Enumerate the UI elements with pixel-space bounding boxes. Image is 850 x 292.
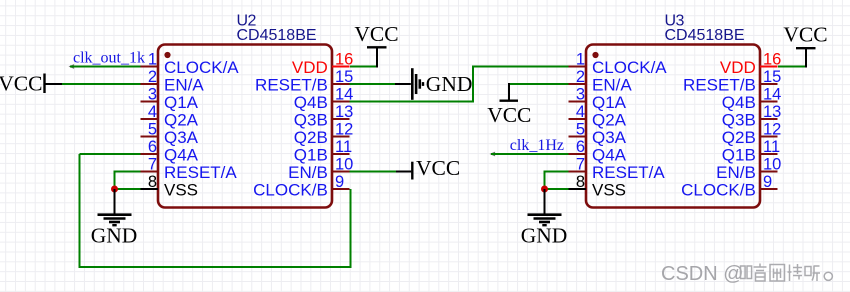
pin 13 Q3B of U3 [722,103,782,130]
svg-text:GND: GND [521,224,568,248]
value CD4518BE (U3) [665,27,745,44]
power symbol VCC (stem down, bar, label below) [487,83,531,127]
junction at U3 ground node [541,186,548,193]
wire U2 pin 14 Q4B to U3 pin 1 CLOCK/A [350,67,569,102]
svg-text:VSS: VSS [164,180,198,199]
pin 15 RESET/B of U3 [683,68,781,95]
svg-text:15: 15 [763,68,781,86]
svg-text:4: 4 [148,103,157,121]
svg-text:13: 13 [335,103,353,121]
svg-text:VDD: VDD [292,58,328,77]
power symbol GND (earth, label below) [91,189,138,248]
pin 1 CLOCK/A of U2 [141,50,240,77]
pin 5 Q3A of U3 [569,120,627,147]
svg-text:VCC: VCC [783,23,827,47]
svg-text:11: 11 [335,138,352,156]
pin 11 Q1B of U2 [294,138,352,165]
svg-text:CSDN @: CSDN @ [661,263,744,285]
pin 6 Q4A of U2 [141,138,199,165]
svg-text:10: 10 [763,155,781,173]
pin 15 RESET/B of U2 [255,68,353,95]
value CD4518BE (U2) [237,27,317,44]
svg-text:Q3A: Q3A [592,128,627,147]
power symbol VCC (bar, stem down) [783,23,827,68]
pin 2 EN/A of U3 [569,68,633,95]
svg-text:6: 6 [576,138,585,156]
designator U3 [665,12,685,29]
pin 14 Q4B of U2 [294,85,354,112]
pin 11 Q1B of U3 [722,138,780,165]
pin 14 Q4B of U3 [722,85,782,112]
svg-text:GND: GND [91,224,138,248]
svg-text:2: 2 [148,68,157,86]
svg-text:RESET/B: RESET/B [255,75,328,94]
pin 10 EN/B of U3 [716,155,781,182]
svg-text:CLOCK/B: CLOCK/B [253,180,328,199]
pin 10 EN/B of U2 [288,155,353,182]
pin 9 CLOCK/B of U2 [253,173,349,200]
svg-text:Q2A: Q2A [164,110,199,129]
pin 7 RESET/A of U3 [569,155,666,182]
power symbol GND (earth, label below) [521,189,568,248]
svg-text:Q2B: Q2B [294,128,328,147]
pin 6 Q4A of U3 [569,138,627,165]
svg-text:VSS: VSS [592,180,626,199]
IC U3 CD4518BE body [586,45,760,208]
power symbol VCC (vertical bar, label right) [396,156,460,180]
wire U3 pin 7 to ground node [545,172,569,190]
pin 12 Q2B of U2 [294,120,354,147]
svg-text:EN/A: EN/A [592,75,632,94]
svg-text:7: 7 [148,155,157,173]
pin 12 Q2B of U3 [722,120,782,147]
svg-text:11: 11 [763,138,780,156]
svg-text:RESET/B: RESET/B [683,75,756,94]
wire U2 pin 6 to feedback loop [80,153,141,155]
svg-text:VCC: VCC [0,71,43,95]
feedback wire U2 pin 9 to U2 pin 6 [80,154,351,267]
pin 2 EN/A of U2 [141,68,205,95]
designator U2 [237,12,257,29]
svg-text:5: 5 [576,120,585,138]
IC U2 CD4518BE body [158,45,332,208]
svg-text:3: 3 [576,85,585,103]
svg-text:6: 6 [148,138,157,156]
svg-text:5: 5 [148,120,157,138]
power symbol VCC (bar, stem down) [354,22,398,68]
svg-text:Q4B: Q4B [722,93,756,112]
svg-text:CD4518BE: CD4518BE [237,27,317,44]
svg-text:Q1A: Q1A [592,93,627,112]
wire U2 pin 10 to VCC [350,171,397,173]
svg-text:EN/A: EN/A [164,75,204,94]
svg-text:EN/B: EN/B [288,163,328,182]
junction at U2 ground node [111,186,118,193]
pin 8 VSS of U2 [141,173,199,200]
svg-text:9: 9 [763,173,772,191]
power symbol VCC (left, horizontal bar) [0,71,62,95]
svg-text:Q1A: Q1A [164,93,199,112]
svg-text:4: 4 [576,103,585,121]
pin 16 VDD of U2 [292,50,353,77]
net label clk_out_1k [73,50,145,67]
pin 13 Q3B of U2 [294,103,354,130]
svg-text:13: 13 [763,103,781,121]
svg-text:7: 7 [576,155,585,173]
svg-text:EN/B: EN/B [716,163,756,182]
svg-text:clk_out_1k: clk_out_1k [73,50,145,67]
svg-text:Q1B: Q1B [722,145,756,164]
svg-text:1: 1 [576,50,585,68]
svg-text:8: 8 [576,173,585,191]
pin 9 CLOCK/B of U3 [681,173,777,200]
svg-text:3: 3 [148,85,157,103]
wire U3 pin 8 to ground node [545,188,569,190]
wire VCC to U2 pin 2 [62,83,141,85]
svg-text:Q3A: Q3A [164,128,199,147]
wire U2 pin 7 to ground node [115,172,141,190]
svg-text:RESET/A: RESET/A [164,163,237,182]
pin 7 RESET/A of U2 [141,155,238,182]
svg-text:CLOCK/A: CLOCK/A [164,58,239,77]
wire clk_out_1k to U2 pin 1 [69,64,141,69]
power symbol GND (earth rotated, label right) [395,68,472,100]
pin 5 Q3A of U2 [141,120,199,147]
svg-text:12: 12 [335,120,353,138]
svg-text:Q2B: Q2B [722,128,756,147]
svg-text:9: 9 [335,173,344,191]
svg-text:VCC: VCC [354,22,398,46]
pin 3 Q1A of U3 [569,85,627,112]
pin 8 VSS of U3 [569,173,627,200]
svg-text:2: 2 [576,68,585,86]
pin 16 VDD of U3 [720,50,781,77]
wire U3 pin 16 to VCC [778,66,806,68]
svg-text:VCC: VCC [487,103,531,127]
svg-text:12: 12 [763,120,781,138]
wire U2 pin 15 to GND [350,83,396,85]
wire U2 pin 8 to ground node [115,188,141,190]
svg-text:VCC: VCC [416,156,460,180]
svg-text:Q2A: Q2A [592,110,627,129]
svg-text:CLOCK/B: CLOCK/B [681,180,756,199]
svg-text:1: 1 [148,50,157,68]
svg-text:Q4A: Q4A [592,145,627,164]
wire clk_1Hz from U3 pin 6 [490,152,569,157]
svg-text:Q3B: Q3B [294,110,328,129]
svg-text:14: 14 [763,85,781,103]
svg-text:GND: GND [426,72,473,96]
pin 1 CLOCK/A of U3 [569,50,668,77]
svg-text:Q3B: Q3B [722,110,756,129]
svg-text:Q4A: Q4A [164,145,199,164]
wire U2 pin 16 to VCC [350,66,377,68]
svg-text:8: 8 [148,173,157,191]
svg-text:VDD: VDD [720,58,756,77]
svg-text:Q1B: Q1B [294,145,328,164]
watermark CSDN @音阙诗听 [661,263,832,285]
pin 4 Q2A of U2 [141,103,199,130]
svg-text:RESET/A: RESET/A [592,163,665,182]
pin 3 Q1A of U2 [141,85,199,112]
svg-text:CD4518BE: CD4518BE [665,27,745,44]
svg-text:clk_1Hz: clk_1Hz [510,137,564,154]
wire VCC to U3 pin 2 [509,83,569,85]
net label clk_1Hz [510,137,564,154]
svg-text:Q4B: Q4B [294,93,328,112]
pin 4 Q2A of U3 [569,103,627,130]
svg-text:CLOCK/A: CLOCK/A [592,58,667,77]
